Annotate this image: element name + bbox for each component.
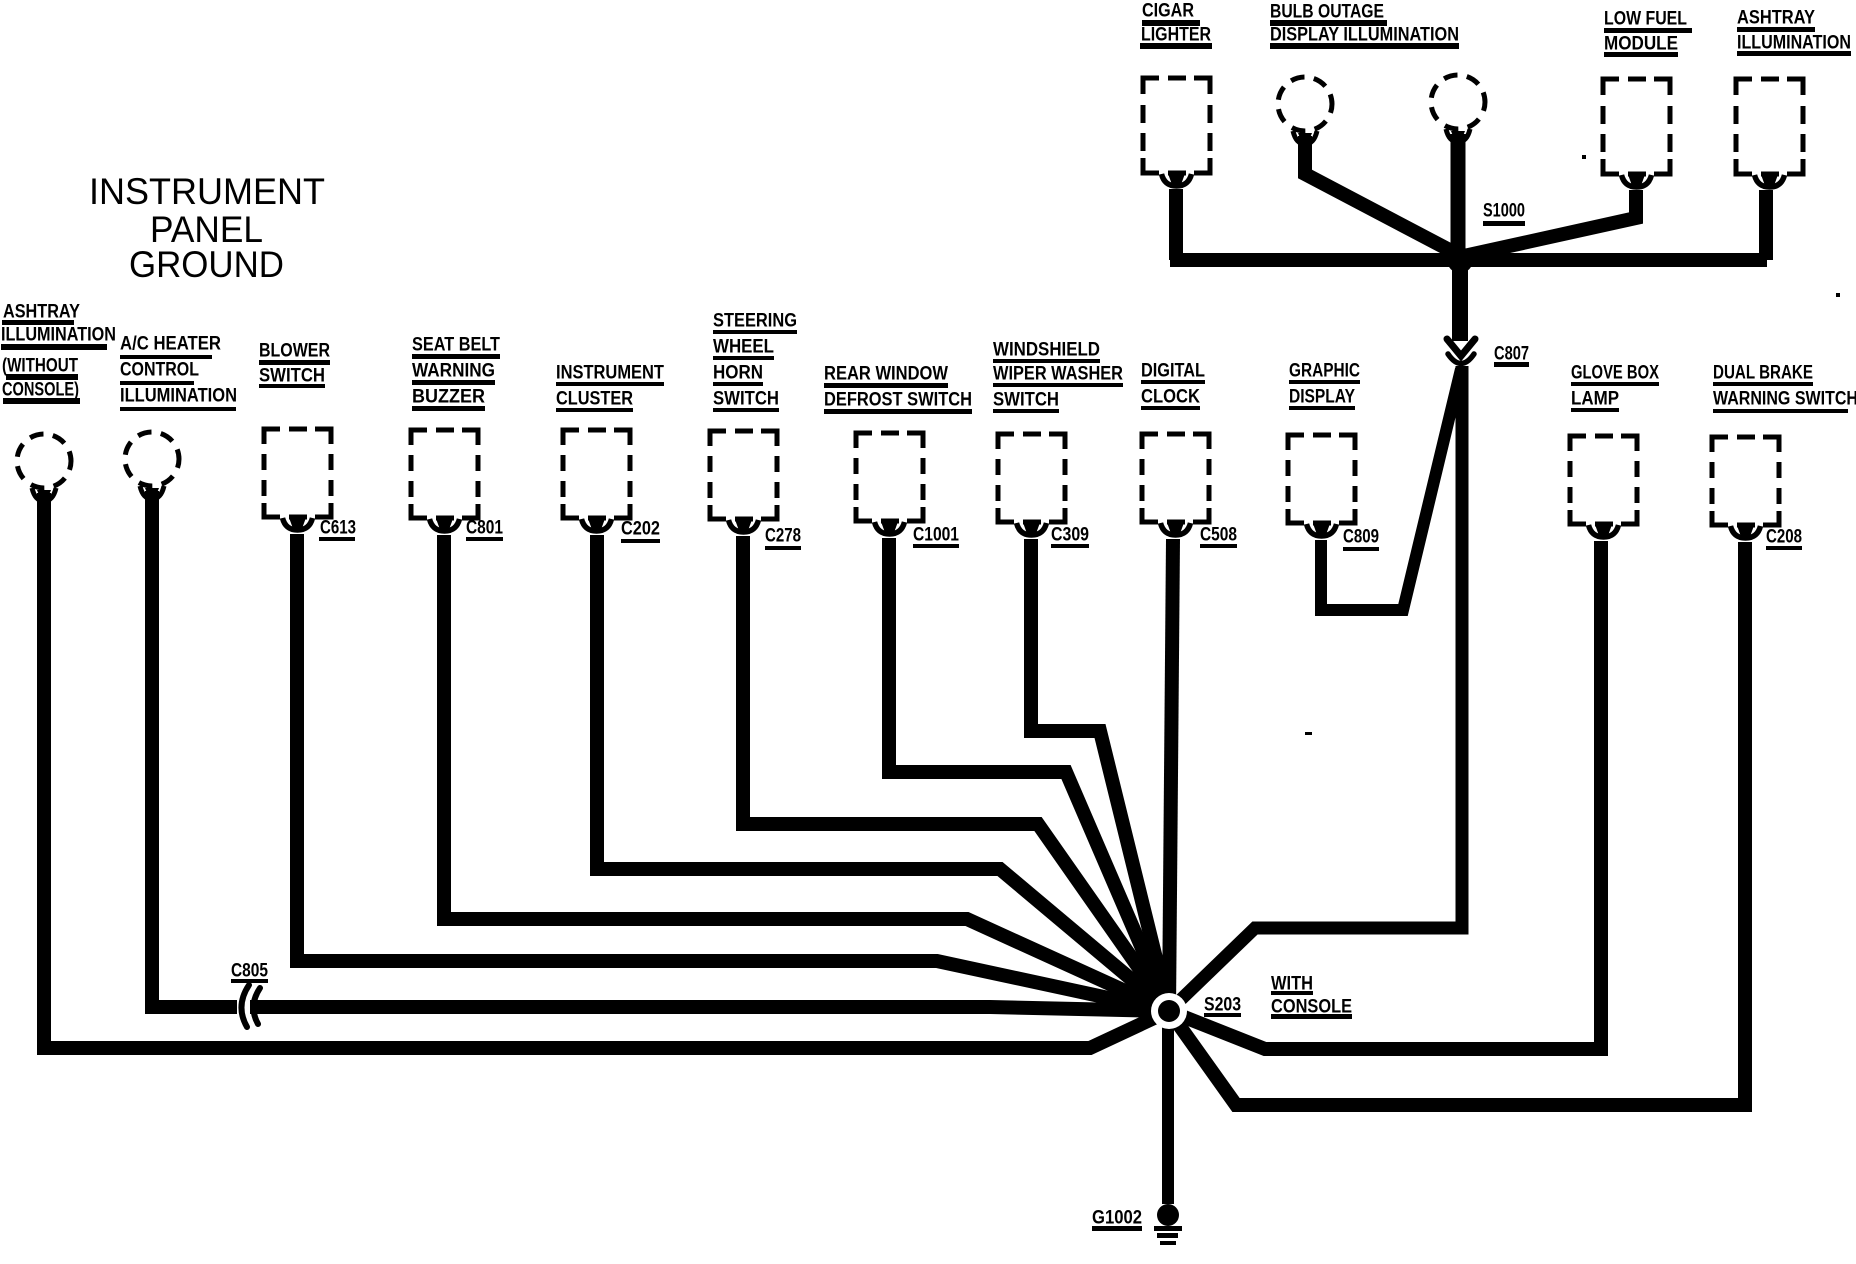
- svg-text:C1001: C1001: [913, 525, 959, 546]
- component INSTRUMENT CLUSTER (dashed box): [563, 430, 630, 518]
- title INSTRUMENT PANEL GROUND: [89, 171, 325, 285]
- svg-text:C805: C805: [231, 961, 268, 982]
- label C1001: [913, 525, 959, 549]
- svg-text:BUZZER: BUZZER: [412, 387, 485, 408]
- connector cup cigar lighter: [1162, 174, 1192, 186]
- svg-text:LAMP: LAMP: [1571, 389, 1619, 410]
- wire horn switch to S203: [743, 536, 1169, 1011]
- svg-text:S1000: S1000: [1483, 201, 1525, 222]
- label SEAT BELT WARNING BUZZER: [412, 335, 500, 412]
- svg-text:(WITHOUT: (WITHOUT: [2, 356, 78, 377]
- svg-text:CIGAR: CIGAR: [1142, 1, 1194, 22]
- component DIGITAL CLOCK (dashed box): [1142, 434, 1209, 522]
- svg-text:C202: C202: [621, 519, 660, 540]
- svg-text:CLUSTER: CLUSTER: [556, 389, 633, 410]
- svg-text:SWITCH: SWITCH: [259, 366, 325, 387]
- svg-text:A/C HEATER: A/C HEATER: [120, 334, 221, 355]
- svg-text:CONSOLE): CONSOLE): [2, 380, 79, 401]
- connector cup bulb outage B: [1446, 129, 1470, 142]
- wire cigar lighter drop: [1169, 189, 1183, 260]
- connector cup dual brake switch: [1731, 526, 1761, 538]
- label INSTRUMENT CLUSTER: [556, 363, 664, 413]
- connector cup digital clock: [1161, 523, 1191, 535]
- svg-text:ILLUMINATION: ILLUMINATION: [1, 325, 116, 346]
- splice S1000 (junction dot): [1447, 247, 1473, 273]
- svg-text:MODULE: MODULE: [1604, 34, 1678, 55]
- wire ashtray w/o console to S203: [44, 493, 1169, 1048]
- label S1000: [1483, 201, 1525, 227]
- label ASHTRAY ILLUMINATION (WITHOUT CONSOLE): [1, 302, 116, 405]
- wire C807 to S203: [1169, 366, 1462, 1011]
- svg-text:BULB OUTAGE: BULB OUTAGE: [1270, 2, 1384, 23]
- svg-text:REAR WINDOW: REAR WINDOW: [824, 364, 948, 385]
- splice S203 (junction with white ring): [1151, 993, 1187, 1029]
- label S203: [1204, 995, 1241, 1018]
- svg-text:C278: C278: [765, 526, 801, 547]
- svg-text:WINDSHIELD: WINDSHIELD: [993, 340, 1100, 361]
- svg-text:CLOCK: CLOCK: [1141, 387, 1200, 408]
- svg-text:ASHTRAY: ASHTRAY: [3, 302, 80, 323]
- wire ashtray illumination drop: [1759, 190, 1773, 260]
- label WITH CONSOLE: [1271, 974, 1352, 1020]
- wire dual brake switch to S203: [1169, 542, 1745, 1105]
- svg-text:DUAL BRAKE: DUAL BRAKE: [1713, 363, 1813, 384]
- svg-text:GRAPHIC: GRAPHIC: [1289, 361, 1360, 382]
- label CIGAR LIGHTER: [1140, 1, 1212, 50]
- label C202: [621, 519, 660, 544]
- label C801: [466, 518, 503, 542]
- svg-text:WARNING: WARNING: [412, 361, 495, 382]
- wire glove box lamp to S203: [1169, 541, 1601, 1049]
- svg-text:S203: S203: [1204, 995, 1241, 1016]
- wire bulb outage A to S1000: [1305, 136, 1457, 254]
- svg-text:SEAT BELT: SEAT BELT: [412, 335, 500, 356]
- label C309: [1051, 525, 1089, 549]
- svg-text:BLOWER: BLOWER: [259, 341, 330, 362]
- component A/C HEATER CONTROL ILLUMINATION (dashed circle): [125, 432, 179, 486]
- svg-text:DIGITAL: DIGITAL: [1141, 361, 1205, 382]
- svg-text:INSTRUMENT: INSTRUMENT: [556, 363, 664, 384]
- speck marks: [1305, 155, 1840, 735]
- connector cup wiper washer switch: [1017, 523, 1047, 535]
- wire wiper washer to S203: [1031, 539, 1169, 1011]
- component GRAPHIC DISPLAY (dashed box): [1288, 435, 1355, 523]
- component BULB OUTAGE lamp A (dashed circle): [1278, 77, 1332, 131]
- connector cup rear defrost switch: [875, 522, 905, 534]
- connector cup ashtray illumination w/o console: [32, 488, 56, 501]
- svg-text:ILLUMINATION: ILLUMINATION: [1737, 33, 1851, 54]
- label DIGITAL CLOCK: [1141, 361, 1205, 411]
- svg-text:C809: C809: [1343, 527, 1379, 548]
- ground G1002 symbol: [1154, 1204, 1182, 1245]
- svg-text:C309: C309: [1051, 525, 1089, 546]
- component CIGAR LIGHTER (dashed box): [1143, 78, 1210, 173]
- svg-text:C801: C801: [466, 518, 503, 539]
- svg-text:C807: C807: [1494, 344, 1529, 365]
- component ASHTRAY ILLUMINATION top-right (dashed box): [1736, 79, 1803, 174]
- label C278: [765, 526, 801, 551]
- svg-text:LOW FUEL: LOW FUEL: [1604, 9, 1687, 30]
- connector C807 (double chevron): [1447, 339, 1475, 364]
- wire digital clock to S203: [1169, 539, 1173, 1011]
- connector cup seat belt buzzer: [430, 519, 460, 531]
- label STEERING WHEEL HORN SWITCH: [713, 311, 797, 413]
- component SEAT BELT WARNING BUZZER (dashed box): [411, 430, 478, 518]
- wire graphic display to C807: [1321, 369, 1461, 610]
- label A/C HEATER CONTROL ILLUMINATION: [120, 334, 237, 412]
- wire seat belt buzzer to S203: [444, 535, 1169, 1011]
- svg-text:ILLUMINATION: ILLUMINATION: [120, 386, 237, 407]
- svg-text:DEFROST SWITCH: DEFROST SWITCH: [824, 390, 972, 411]
- label C809: [1343, 527, 1379, 552]
- label DUAL BRAKE WARNING SWITCH: [1713, 363, 1856, 414]
- connector cup steering horn switch: [729, 520, 759, 532]
- label GLOVE BOX LAMP: [1571, 363, 1659, 413]
- label C208: [1766, 527, 1802, 551]
- connector cup blower switch: [283, 518, 313, 530]
- connector cup ashtray illumination top-right: [1755, 175, 1785, 187]
- connector cup glove box lamp: [1589, 525, 1619, 537]
- component BULB OUTAGE lamp B (dashed circle): [1431, 75, 1485, 129]
- svg-text:CONTROL: CONTROL: [120, 360, 199, 381]
- svg-text:WIPER WASHER: WIPER WASHER: [993, 364, 1123, 385]
- svg-text:WARNING SWITCH: WARNING SWITCH: [1713, 389, 1856, 410]
- bus wire S1000: [1170, 253, 1767, 267]
- label BLOWER SWITCH: [259, 341, 330, 389]
- wire low fuel module to S1000: [1464, 190, 1636, 256]
- label C508: [1200, 525, 1237, 549]
- svg-text:DISPLAY: DISPLAY: [1289, 387, 1355, 408]
- connector cup low fuel module: [1622, 175, 1652, 187]
- label C613: [319, 518, 356, 542]
- svg-text:ASHTRAY: ASHTRAY: [1737, 8, 1815, 29]
- wire to ground: [1162, 1011, 1174, 1204]
- svg-text:STEERING: STEERING: [713, 311, 797, 332]
- svg-text:GROUND: GROUND: [129, 244, 284, 285]
- wire bulb outage B to S1000: [1451, 134, 1466, 260]
- component REAR WINDOW DEFROST SWITCH (dashed box): [856, 433, 923, 521]
- connector cup A/C heater: [140, 486, 164, 499]
- svg-text:WHEEL: WHEEL: [713, 337, 774, 358]
- svg-text:SWITCH: SWITCH: [713, 389, 779, 410]
- component BLOWER SWITCH (dashed box): [264, 429, 331, 517]
- connector cup graphic display: [1307, 524, 1337, 536]
- svg-text:GLOVE BOX: GLOVE BOX: [1571, 363, 1659, 384]
- connector cup instrument cluster: [582, 519, 612, 531]
- label REAR WINDOW DEFROST SWITCH: [824, 364, 972, 415]
- svg-text:SWITCH: SWITCH: [993, 390, 1059, 411]
- component ASHTRAY ILLUMINATION w/o console (dashed circle): [17, 434, 71, 488]
- wire instrument cluster to S203: [597, 535, 1169, 1011]
- label ASHTRAY ILLUMINATION (top right): [1737, 8, 1851, 57]
- wire blower switch to S203: [297, 534, 1169, 1011]
- component DUAL BRAKE WARNING SWITCH (dashed box): [1712, 437, 1779, 525]
- label WINDSHIELD WIPER WASHER SWITCH: [993, 340, 1123, 414]
- svg-text:DISPLAY ILLUMINATION: DISPLAY ILLUMINATION: [1270, 25, 1459, 46]
- label C805: [231, 961, 268, 984]
- connector C805 (in-line break): [237, 985, 260, 1027]
- wire rear defrost to S203: [889, 538, 1169, 1011]
- label G1002: [1092, 1208, 1142, 1232]
- wire S1000 to C807: [1452, 260, 1468, 341]
- label GRAPHIC DISPLAY: [1289, 361, 1360, 411]
- component WINDSHIELD WIPER WASHER SWITCH (dashed box): [998, 434, 1065, 522]
- connector cup bulb outage A: [1293, 131, 1317, 144]
- svg-text:LIGHTER: LIGHTER: [1141, 25, 1211, 46]
- svg-text:C508: C508: [1200, 525, 1237, 546]
- label LOW FUEL MODULE: [1604, 9, 1692, 58]
- svg-text:G1002: G1002: [1092, 1208, 1142, 1229]
- svg-text:C613: C613: [320, 518, 356, 539]
- component GLOVE BOX LAMP (dashed box): [1570, 436, 1637, 524]
- component LOW FUEL MODULE (dashed box): [1603, 79, 1670, 174]
- component STEERING WHEEL HORN SWITCH (dashed box): [710, 431, 777, 519]
- label C807: [1494, 344, 1529, 368]
- label BULB OUTAGE DISPLAY ILLUMINATION: [1270, 2, 1459, 50]
- svg-text:INSTRUMENT: INSTRUMENT: [89, 171, 325, 212]
- svg-text:HORN: HORN: [713, 363, 763, 384]
- svg-text:C208: C208: [1766, 527, 1802, 548]
- wire A/C heater to S203: [152, 491, 1169, 1011]
